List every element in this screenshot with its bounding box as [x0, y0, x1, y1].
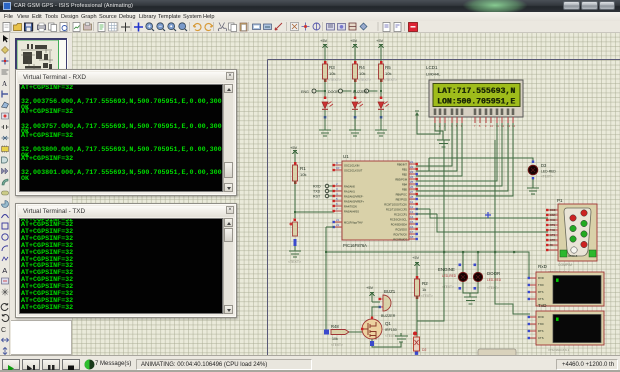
connector P1 COMPIM body	[558, 204, 597, 261]
svg-text:11: 11	[496, 124, 499, 128]
svg-text:3: 3	[336, 187, 338, 191]
svg-text:17: 17	[410, 230, 414, 234]
wire R1 top	[294, 158, 296, 165]
svg-text:R1: R1	[300, 166, 306, 171]
U1 left pin state dots	[333, 164, 335, 228]
virtual terminal RxD pin names	[538, 276, 544, 301]
wire junction x326	[325, 251, 327, 253]
svg-text:13: 13	[410, 210, 414, 214]
wire junction dots bus	[443, 251, 445, 253]
svg-text:RXD: RXD	[313, 185, 321, 189]
svg-text:TxD: TxD	[538, 303, 547, 308]
svg-text:COMPIM: COMPIM	[558, 263, 572, 267]
svg-text:<TEXT>: <TEXT>	[384, 78, 397, 82]
svg-text:TXD: TXD	[313, 190, 321, 194]
svg-text:R2: R2	[422, 281, 428, 286]
svg-text:13: 13	[507, 124, 511, 128]
svg-text:R4: R4	[359, 65, 365, 70]
LED D5	[352, 97, 363, 119]
LED D4	[322, 97, 333, 119]
U1 right pin labels	[384, 163, 407, 242]
wire long horizontal bus	[326, 227, 536, 332]
power +5V LCD VDD	[415, 111, 419, 116]
svg-text:8: 8	[479, 124, 481, 128]
LED DOOR	[473, 264, 482, 290]
wire MCLR horizontal	[295, 211, 334, 213]
ground Q1	[395, 333, 408, 342]
svg-text:21: 21	[336, 218, 340, 222]
LCD pin stubs	[435, 117, 513, 123]
ground ENGINE DOOR	[464, 297, 477, 304]
svg-text:PIC16F876A: PIC16F876A	[343, 243, 367, 248]
power +5V R2	[412, 255, 420, 270]
wire vertical x444	[417, 140, 444, 321]
wire LED2 to ground	[354, 110, 356, 130]
svg-text:23: 23	[410, 170, 414, 174]
svg-text:RC5/SDO: RC5/SDO	[395, 228, 407, 232]
LED D2	[413, 332, 420, 355]
power +5V branch 3	[376, 38, 384, 52]
connector P1 pin stubs	[548, 210, 558, 250]
svg-text:14: 14	[512, 124, 516, 128]
wire MCU TX to P1	[416, 209, 548, 218]
svg-text:15: 15	[410, 220, 414, 224]
svg-text:ENG: ENG	[301, 90, 309, 94]
wire R3 top	[324, 52, 326, 64]
LED D6	[378, 97, 389, 119]
svg-text:10k: 10k	[359, 71, 365, 76]
svg-text:RTS: RTS	[550, 223, 555, 227]
svg-text:DTR: DTR	[550, 238, 555, 242]
svg-text:RXD: RXD	[538, 276, 544, 280]
svg-text:RTS: RTS	[538, 290, 544, 294]
wire LCD VSS to ground	[435, 123, 443, 140]
svg-text:BUZZER: BUZZER	[381, 314, 396, 318]
resistor R1	[293, 162, 307, 184]
svg-text:RB0/INT: RB0/INT	[397, 163, 407, 167]
svg-text:LM044L: LM044L	[426, 72, 441, 77]
svg-text:TXD: TXD	[538, 283, 544, 287]
svg-text:R3: R3	[329, 65, 335, 70]
wire R5 top	[380, 52, 382, 64]
svg-text:1k: 1k	[422, 287, 426, 292]
sheet border	[268, 60, 620, 356]
svg-text:DOOR: DOOR	[487, 271, 500, 276]
node terminal RST	[313, 194, 334, 198]
svg-text:<TEXT>: <TEXT>	[487, 286, 499, 290]
svg-text:RXD: RXD	[538, 315, 544, 319]
svg-text:RA0/AN0: RA0/AN0	[344, 185, 355, 189]
U1 left pin labels	[344, 164, 364, 225]
svg-text:TXD: TXD	[550, 228, 555, 232]
resistor R2	[415, 270, 434, 299]
wire MCU RX to P1	[416, 214, 548, 232]
svg-text:RXD: RXD	[550, 218, 556, 222]
svg-text:10: 10	[490, 124, 494, 128]
svg-text:10k: 10k	[385, 71, 391, 76]
wire LED1 to ground	[324, 110, 326, 130]
svg-text:OSC2/CLKOUT: OSC2/CLKOUT	[344, 169, 363, 173]
svg-text:RST: RST	[313, 195, 321, 199]
virtual terminal RxD screen	[553, 276, 601, 304]
svg-text:RB5: RB5	[402, 188, 408, 192]
resistor R5	[379, 61, 398, 82]
svg-text:DOOR: DOOR	[328, 90, 339, 94]
wire R1 to MCLR junction	[294, 181, 296, 218]
LCD screen	[433, 84, 520, 107]
wire BUZ1 to Q1	[372, 307, 380, 319]
virtual terminal TxD body	[536, 311, 604, 345]
LCD pin labels	[434, 109, 515, 116]
virtual terminal TxD pin stubs	[530, 317, 536, 338]
resistor R3	[323, 61, 342, 82]
svg-text:22: 22	[336, 223, 340, 227]
svg-text:26: 26	[410, 185, 414, 189]
svg-text:LED-RED: LED-RED	[541, 170, 556, 174]
svg-text:RB6/PGC: RB6/PGC	[396, 193, 408, 197]
wire ENGINE DOOR to ground	[463, 282, 478, 297]
wire LCD RS	[416, 123, 452, 166]
svg-text:11: 11	[410, 200, 413, 204]
svg-text:<TEXT>: <TEXT>	[358, 78, 371, 82]
svg-text:7: 7	[336, 207, 338, 211]
svg-text:2: 2	[336, 182, 338, 186]
svg-text:LED-RED: LED-RED	[487, 278, 502, 282]
svg-text:CTS: CTS	[550, 233, 555, 237]
svg-text:RC3/SCK/SCL: RC3/SCK/SCL	[390, 218, 408, 222]
menu bar	[0, 12, 620, 21]
svg-text:LED-RED: LED-RED	[442, 274, 457, 278]
svg-text:12: 12	[410, 205, 414, 209]
resistor R48	[331, 330, 362, 335]
wire LCD D4	[416, 123, 497, 181]
svg-text:RC4/SDI/SDA: RC4/SDI/SDA	[391, 223, 408, 227]
svg-text:7: 7	[474, 124, 476, 128]
LED D3	[528, 161, 556, 180]
svg-text:+5V: +5V	[412, 255, 420, 260]
svg-text:ENGINE: ENGINE	[438, 267, 455, 272]
svg-text:+5V: +5V	[366, 285, 374, 290]
svg-text:BUZ1: BUZ1	[384, 289, 396, 294]
ground LCD	[437, 140, 450, 147]
LED ENGINE	[458, 264, 467, 290]
svg-text:10k: 10k	[329, 71, 335, 76]
svg-text:OSC1/CLKIN: OSC1/CLKIN	[344, 164, 360, 168]
svg-text:27: 27	[410, 190, 414, 194]
virtual terminal TxD pin names	[538, 315, 544, 340]
svg-text:LON:500.705951,E: LON:500.705951,E	[438, 98, 516, 107]
svg-text:RA2/AN2/VREF-: RA2/AN2/VREF-	[344, 195, 363, 199]
wire SW1 to ground	[294, 246, 296, 251]
svg-text:RI: RI	[550, 243, 553, 247]
svg-text:DCD: DCD	[550, 208, 556, 212]
svg-text:<TEXT>: <TEXT>	[288, 260, 301, 264]
virtual terminal RxD state dots	[528, 277, 530, 300]
wire junction branch x=355	[354, 90, 356, 92]
svg-text:U1: U1	[343, 154, 349, 159]
svg-text:R48: R48	[331, 324, 339, 329]
wire R4 top	[354, 52, 356, 64]
virtual terminal RxD pin stubs	[530, 278, 536, 299]
U1 right pin stubs	[409, 164, 416, 239]
svg-text:12: 12	[501, 124, 505, 128]
resistor R4	[353, 61, 372, 82]
svg-text:RTS: RTS	[538, 329, 544, 333]
wire junction branch x=325	[324, 90, 326, 92]
wire LCD VEE to ground	[444, 123, 446, 131]
ground branch 2	[349, 130, 361, 136]
U1 left pin numbers	[336, 161, 340, 227]
svg-text:RA4/T0CKI: RA4/T0CKI	[344, 205, 357, 209]
title bar	[0, 0, 620, 12]
svg-text:MCLR/Vpp/THV: MCLR/Vpp/THV	[344, 221, 363, 225]
node terminal DOOR	[328, 89, 352, 94]
U1 right pin numbers	[410, 160, 414, 239]
wire R2 to D2	[416, 296, 418, 337]
svg-text:14: 14	[410, 215, 414, 219]
wire LED3 to ground	[380, 110, 382, 130]
connector P1 DB9 shell	[564, 208, 591, 256]
transistor Q1	[361, 317, 382, 340]
svg-text:21: 21	[410, 160, 414, 164]
overview minimap	[11, 33, 71, 77]
svg-text:RC2/CCP1: RC2/CCP1	[394, 213, 407, 217]
svg-text:R5: R5	[385, 65, 391, 70]
svg-text:D2: D2	[422, 348, 426, 352]
wire LCD D5	[416, 123, 502, 186]
svg-text:DSR: DSR	[550, 213, 556, 217]
label trial box	[478, 349, 516, 357]
wire vertical x495	[495, 140, 530, 314]
svg-text:<TEXT>: <TEXT>	[328, 78, 341, 82]
wire R4 bottom to LED	[354, 79, 356, 99]
svg-text:P1: P1	[557, 198, 563, 203]
U1 left pin stubs	[334, 165, 342, 227]
svg-text:18: 18	[410, 235, 414, 239]
virtual terminal TxD cursor	[556, 318, 559, 321]
LCD LCD1 body	[429, 80, 523, 117]
svg-text:+5V: +5V	[290, 145, 298, 150]
buzzer BUZ1	[372, 295, 391, 311]
svg-text:24: 24	[410, 175, 414, 179]
connector P1 pins	[570, 210, 587, 253]
svg-text:RC1/T1OSI/CCP2: RC1/T1OSI/CCP2	[386, 208, 408, 212]
virtual terminal TxD screen	[553, 315, 601, 343]
svg-text:<TEXT>: <TEXT>	[421, 294, 433, 298]
ground branch 3	[375, 130, 387, 136]
svg-text:RxD: RxD	[538, 264, 548, 269]
node terminal ENG	[301, 89, 325, 94]
svg-text:LCD1: LCD1	[426, 65, 438, 70]
svg-text:28: 28	[410, 195, 414, 199]
svg-text:VT52,9600,8,N,1: VT52,9600,8,N,1	[548, 348, 570, 352]
virtual terminal TxD state dots	[528, 316, 530, 339]
U1 right pin state dots	[416, 163, 418, 240]
ground D3	[527, 188, 539, 194]
ground SW1	[289, 251, 301, 257]
power +5V BUZ1	[366, 285, 375, 299]
LCD pin numbers	[434, 124, 516, 128]
wire R5 bottom to LED	[380, 79, 382, 99]
canvas grid	[10, 33, 73, 355]
svg-text:RB4: RB4	[402, 183, 408, 187]
push button SW1	[290, 219, 298, 247]
virtual terminal RxD cursor	[556, 279, 559, 282]
left sidebar	[0, 33, 10, 355]
svg-text:4: 4	[336, 192, 338, 196]
wire DOOR top	[477, 252, 479, 272]
svg-text:+5V: +5V	[376, 38, 384, 43]
svg-text:RC7/RX/DT: RC7/RX/DT	[393, 238, 407, 242]
svg-text:RA1/AN1: RA1/AN1	[344, 190, 355, 194]
wire LCD D6	[416, 123, 508, 191]
svg-text:25: 25	[410, 180, 414, 184]
svg-text:RB1: RB1	[402, 168, 408, 172]
status bar	[0, 355, 620, 372]
svg-text:CTS: CTS	[538, 297, 544, 301]
svg-text:RB7/PGD: RB7/PGD	[396, 198, 408, 202]
node terminal BUZZER	[353, 89, 378, 94]
wire ENGINE top	[462, 252, 464, 272]
svg-text:10: 10	[336, 166, 340, 170]
svg-text:RA5/AN4/SS: RA5/AN4/SS	[344, 210, 359, 214]
power +5V branch 2	[350, 38, 358, 52]
object selector (white)	[11, 320, 72, 355]
wire LCD D7	[416, 123, 513, 196]
Virtual Terminal RXD window	[15, 69, 237, 196]
power +5V branch 1	[320, 38, 328, 52]
node junction probe	[485, 212, 491, 218]
node terminal RXD	[313, 184, 334, 188]
svg-text:IRF150: IRF150	[385, 328, 397, 332]
power +5V R1	[290, 145, 298, 158]
connector P1 pin names	[550, 208, 556, 247]
ground branch 1	[319, 130, 331, 136]
virtual terminal RxD body	[536, 272, 604, 306]
svg-text:RB2: RB2	[402, 173, 408, 177]
svg-text:D3: D3	[541, 163, 547, 168]
svg-text:5: 5	[336, 197, 338, 201]
wire LCD RW	[416, 123, 457, 171]
toolbar	[0, 21, 620, 33]
Virtual Terminal TXD window	[15, 203, 237, 318]
connector P1 state dots	[546, 209, 548, 251]
svg-text:LAT:717.555693,N: LAT:717.555693,N	[438, 87, 516, 96]
wire LCD E	[416, 123, 462, 176]
wire junction branch x=381	[380, 90, 382, 92]
svg-text:RA3/AN3/VREF+: RA3/AN3/VREF+	[344, 200, 364, 204]
svg-text:10k: 10k	[332, 337, 338, 341]
svg-text:+5V: +5V	[320, 38, 328, 43]
wire LCD VDD	[417, 115, 440, 134]
svg-text:10k: 10k	[300, 172, 306, 177]
wire to D3	[429, 158, 533, 171]
connector P1 status squares	[560, 250, 567, 257]
node R48 left tag	[324, 330, 329, 335]
svg-text:9: 9	[485, 124, 487, 128]
svg-text:9600-8: 9600-8	[568, 254, 578, 258]
svg-text:16: 16	[410, 225, 414, 229]
wire D3 to ground	[532, 179, 534, 188]
svg-text:9: 9	[336, 161, 338, 165]
wire junction MCLR	[294, 211, 296, 213]
microcontroller U1 PIC16F876A body	[342, 161, 409, 240]
svg-text:<TEXT>: <TEXT>	[331, 343, 343, 347]
svg-text:RC6/TX/CK: RC6/TX/CK	[393, 233, 407, 237]
svg-text:22: 22	[410, 165, 414, 169]
svg-text:6: 6	[336, 202, 338, 206]
svg-text:CTS: CTS	[538, 336, 544, 340]
svg-text:RC0/T1OSO/T1CKI: RC0/T1OSO/T1CKI	[384, 203, 407, 207]
svg-text:+5V: +5V	[350, 38, 358, 43]
svg-text:<TEXT>: <TEXT>	[541, 175, 553, 179]
wire Q1 source to ground	[372, 339, 401, 347]
svg-text:Q1: Q1	[385, 321, 391, 326]
svg-text:<TEXT>: <TEXT>	[442, 285, 454, 289]
svg-text:RB3/PGM: RB3/PGM	[395, 178, 407, 182]
node Q1 source tag	[370, 341, 374, 346]
svg-text:TXD: TXD	[538, 322, 544, 326]
node terminal TXD	[313, 189, 334, 193]
wire R3 bottom to LED	[324, 79, 326, 99]
